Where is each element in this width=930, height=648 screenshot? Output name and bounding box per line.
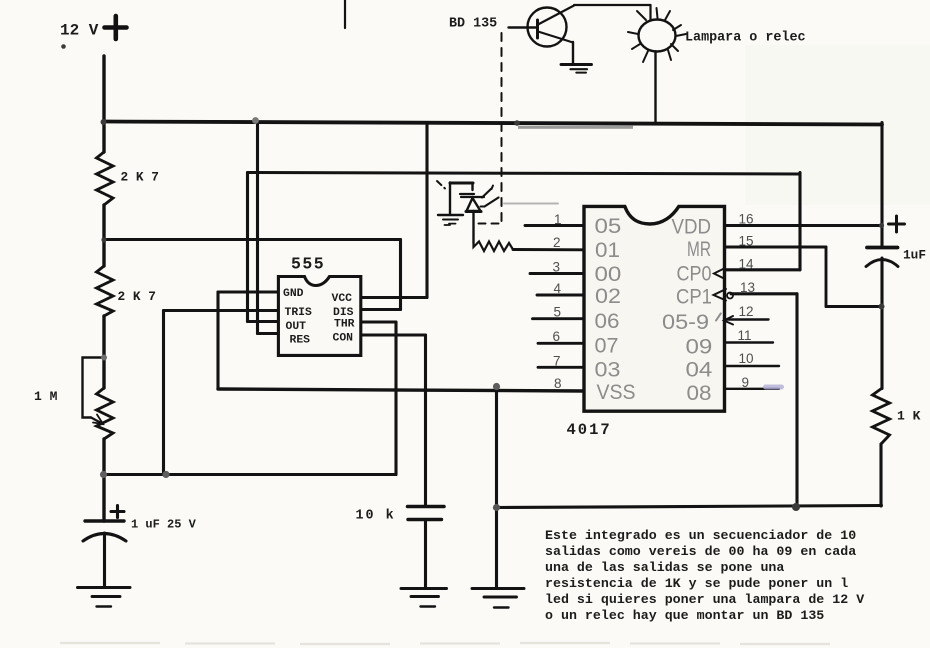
svg-text:2 K 7: 2 K 7: [121, 170, 159, 185]
svg-text:CP1: CP1: [676, 285, 712, 308]
svg-text:15: 15: [739, 234, 754, 249]
svg-text:8: 8: [554, 376, 562, 391]
svg-text:10: 10: [739, 351, 754, 366]
svg-text:13: 13: [740, 280, 755, 295]
svg-text:1 uF 25 V: 1 uF 25 V: [131, 518, 197, 532]
svg-text:THR: THR: [334, 319, 355, 331]
svg-text:1uF: 1uF: [903, 248, 926, 263]
svg-text:2: 2: [553, 235, 561, 250]
svg-text:2 K 7: 2 K 7: [118, 289, 156, 304]
svg-text:05-9: 05-9: [662, 310, 709, 334]
svg-text:14: 14: [739, 257, 755, 272]
svg-text:resistencia de 1K y se pude po: resistencia de 1K y se pude poner un l: [545, 576, 848, 591]
svg-text:10 k: 10 k: [356, 509, 396, 524]
svg-text:03: 03: [595, 357, 621, 381]
svg-text:BD 135: BD 135: [449, 17, 497, 32]
svg-text:o un relec hay que montar un B: o un relec hay que montar un BD 135: [545, 608, 824, 623]
svg-text:VSS: VSS: [597, 381, 636, 404]
svg-text:05: 05: [595, 215, 622, 238]
svg-text:6: 6: [553, 329, 561, 344]
svg-text:DIS: DIS: [333, 307, 354, 319]
svg-text:VCC: VCC: [332, 293, 353, 305]
svg-text:12 V: 12 V: [60, 22, 99, 40]
svg-text:3: 3: [553, 260, 561, 275]
svg-text:16: 16: [739, 212, 754, 227]
svg-text:4: 4: [554, 281, 562, 296]
svg-text:9: 9: [742, 375, 750, 390]
svg-text:1 M: 1 M: [34, 389, 58, 404]
svg-text:01: 01: [595, 238, 620, 262]
svg-text:12: 12: [739, 304, 754, 319]
svg-text:GND: GND: [283, 288, 304, 300]
svg-text:555: 555: [291, 255, 325, 274]
svg-text:11: 11: [738, 328, 752, 343]
svg-text:07: 07: [595, 334, 619, 358]
svg-text:Este integrado es un secuencia: Este integrado es un secuenciador de 10: [545, 528, 856, 543]
svg-text:5: 5: [554, 305, 562, 320]
svg-text:MR: MR: [687, 237, 711, 261]
svg-text:09: 09: [686, 335, 713, 358]
svg-text:4017: 4017: [567, 421, 612, 439]
svg-text:04: 04: [686, 358, 713, 381]
svg-text:Lampara o relec: Lampara o relec: [685, 31, 806, 46]
svg-text:TRIS: TRIS: [285, 307, 313, 319]
svg-text:08: 08: [687, 381, 712, 405]
svg-text:06: 06: [595, 309, 620, 333]
svg-text:7: 7: [553, 354, 561, 369]
svg-text:CP0: CP0: [677, 262, 712, 286]
svg-text:VDD: VDD: [672, 216, 711, 239]
svg-text:salidas como vereis de 00 ha 0: salidas como vereis de 00 ha 09 en cada: [545, 544, 856, 559]
svg-text:RES: RES: [290, 335, 311, 347]
svg-text:00: 00: [595, 263, 622, 286]
svg-text:1 K: 1 K: [897, 409, 921, 424]
svg-text:OUT: OUT: [286, 321, 307, 333]
svg-text:CON: CON: [333, 332, 354, 344]
svg-text:1: 1: [554, 212, 562, 227]
svg-text:led si quieres poner una lampa: led si quieres poner una lampara de 12 V: [545, 592, 864, 607]
svg-text:una de las salidas se pone una: una de las salidas se pone una: [545, 560, 784, 575]
svg-text:02: 02: [595, 284, 621, 308]
